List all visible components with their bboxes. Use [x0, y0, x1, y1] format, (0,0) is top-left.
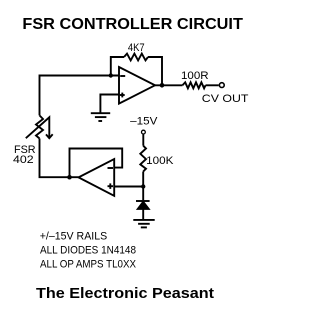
svg-text:+/–15V RAILS: +/–15V RAILS — [40, 231, 108, 243]
svg-text:402: 402 — [13, 154, 34, 166]
svg-text:100K: 100K — [146, 155, 174, 167]
svg-text:FSR CONTROLLER CIRCUIT: FSR CONTROLLER CIRCUIT — [22, 16, 243, 33]
svg-text:ALL DIODES 1N4148: ALL DIODES 1N4148 — [40, 244, 136, 256]
svg-text:ALL OP AMPS TL0XX: ALL OP AMPS TL0XX — [40, 258, 137, 270]
svg-text:4K7: 4K7 — [128, 42, 145, 54]
svg-text:The Electronic Peasant: The Electronic Peasant — [36, 285, 214, 302]
svg-text:–15V: –15V — [130, 116, 158, 128]
svg-text:CV OUT: CV OUT — [202, 93, 249, 105]
svg-text:100R: 100R — [181, 70, 209, 82]
